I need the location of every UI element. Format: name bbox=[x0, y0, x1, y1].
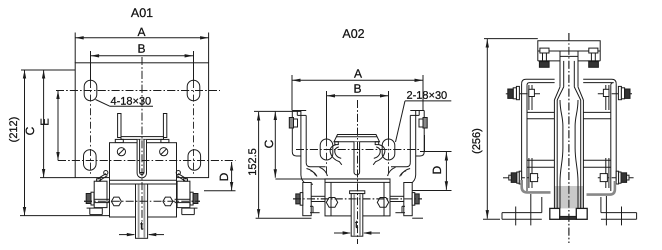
clamp jaw plate left A01 bbox=[94, 181, 107, 207]
bolt axis centerline A02 bbox=[293, 198, 422, 200]
svg-text:B: B bbox=[353, 82, 361, 96]
slot hole left 18x30 A02 bbox=[320, 139, 333, 160]
svg-text:A: A bbox=[354, 67, 362, 81]
cross plate lower right bbox=[583, 159, 610, 161]
upper angle bracket left bbox=[522, 79, 555, 83]
centerline overlay A01 lower slots bbox=[58, 160, 236, 162]
rail claw hook left A02 (under T-bar end) bbox=[330, 145, 342, 165]
hex bolt left A02 bbox=[326, 198, 337, 208]
wall bolt right A02 bbox=[423, 118, 427, 129]
vertical centerline A02 bbox=[357, 100, 359, 244]
svg-text:4-18×30: 4-18×30 bbox=[110, 96, 151, 108]
slot hole bottom-left 18x30 bbox=[84, 150, 97, 170]
hanger lug left bbox=[559, 51, 561, 87]
L-foot right side view bbox=[587, 181, 615, 195]
clamp bolt axis centerline A01 bbox=[84, 200, 200, 202]
svg-text:D: D bbox=[430, 166, 444, 175]
vertical centerline side view bbox=[568, 33, 570, 243]
slot vertical centerline right bbox=[193, 51, 195, 81]
top mounting plate side view bbox=[538, 41, 600, 61]
svg-text:(256): (256) bbox=[471, 128, 483, 154]
centerline overlay A01 upper slots bbox=[56, 90, 220, 92]
svg-text:E: E bbox=[40, 118, 52, 126]
base bar right bbox=[601, 212, 637, 214]
clamp jaw plate right A01 bbox=[177, 181, 190, 207]
dimension C (A01) bbox=[40, 177, 75, 179]
right suspension U-hook A02 bbox=[410, 110, 424, 112]
wall bolt left A02 bbox=[289, 118, 293, 129]
claw strap right A01 bbox=[178, 174, 186, 179]
centerline overlay side view vertical bbox=[568, 33, 570, 243]
dimension (212) left bbox=[21, 69, 75, 71]
lower bolt cluster right side view bbox=[598, 177, 635, 179]
angle foot left A02 bbox=[310, 212, 320, 214]
label 2-18x30 with leader bbox=[396, 101, 406, 142]
rail waist profile right bbox=[575, 100, 578, 209]
upper angle bracket right bbox=[583, 79, 616, 83]
clamp block A02 bbox=[325, 179, 390, 216]
rail shading bottom bbox=[555, 186, 584, 208]
hanger lug right bbox=[577, 51, 579, 87]
L-foot left side view bbox=[522, 180, 551, 192]
svg-text:C: C bbox=[262, 139, 276, 148]
lower bolt cluster left side view bbox=[503, 177, 540, 179]
right wall A02 bbox=[415, 111, 417, 176]
rod washer right bbox=[161, 139, 169, 142]
slot hole right 18x30 A02 bbox=[382, 139, 395, 160]
clamp jaw plate right A02 bbox=[404, 183, 412, 216]
lower bolt hex right bbox=[163, 197, 173, 206]
upper bolt cluster left side view bbox=[528, 85, 530, 110]
top bolt left side view bbox=[540, 48, 549, 53]
left wall A02 bbox=[300, 111, 302, 176]
dimension (256) side view bbox=[484, 38, 538, 40]
side bolt right A01 bbox=[175, 198, 191, 200]
left suspension U-hook A02 bbox=[292, 110, 306, 112]
centerline overlay A02 vertical bbox=[357, 100, 359, 244]
side bolt left A02 bbox=[296, 194, 300, 204]
side plate right bbox=[615, 84, 617, 182]
top bolt right side view bbox=[589, 48, 598, 53]
svg-text:C: C bbox=[23, 126, 37, 135]
rail web bar A02 bbox=[350, 191, 365, 194]
dimension B (A02) bbox=[327, 95, 389, 97]
cross plate upper right bbox=[583, 111, 610, 113]
top bar A01 bbox=[121, 137, 164, 140]
svg-text:D: D bbox=[217, 172, 231, 181]
mounting plate A01 bbox=[75, 63, 208, 178]
claw strap left A01 bbox=[98, 174, 106, 179]
svg-text:A: A bbox=[137, 25, 145, 39]
svg-text:(212): (212) bbox=[8, 117, 20, 143]
cross plate lower left bbox=[527, 159, 554, 161]
rod washer left bbox=[115, 139, 123, 142]
slot hole top-right 18x30 bbox=[187, 80, 200, 100]
upper bolt cluster right side view bbox=[605, 85, 607, 110]
slot vertical centerlines A02 bbox=[326, 91, 328, 139]
dimension D (A01) bbox=[204, 190, 236, 192]
rail waist profile left bbox=[560, 100, 563, 209]
base feet blocks bbox=[550, 208, 560, 219]
slot centerline A02 bbox=[296, 149, 420, 151]
clamp screw right (slotted) bbox=[160, 148, 168, 156]
side plate left bbox=[521, 84, 523, 182]
T-bolt stem A01 bbox=[140, 139, 144, 174]
slot hole top-left 18x30 bbox=[84, 80, 97, 100]
svg-text:152.5: 152.5 bbox=[247, 148, 259, 176]
T-bolt stem A02 bbox=[354, 142, 360, 175]
angle foot left A01 bbox=[87, 207, 103, 209]
dimension t (A01) bbox=[119, 234, 134, 236]
clamp divider lines bbox=[110, 179, 177, 181]
hanger rod left A01 bbox=[118, 114, 121, 138]
clamp top plate A02 bbox=[275, 178, 390, 180]
lug flare diagonals bbox=[554, 87, 560, 100]
dimension 152.5 bbox=[254, 110, 301, 112]
rail claw hook right A02 (under T-bar end) bbox=[373, 145, 385, 165]
lower slot centerline A01 bbox=[58, 160, 236, 162]
slot hole bottom-right 18x30 bbox=[188, 150, 201, 170]
label 4-18x30 with leader bbox=[96, 100, 111, 107]
dimension C (A02) bbox=[274, 112, 276, 178]
centerline overlay A02 bolt axis bbox=[293, 198, 422, 200]
dimension A (A01) bbox=[74, 33, 76, 63]
dimension D (A02) bbox=[420, 151, 452, 153]
upper slot centerline A01 bbox=[56, 90, 220, 92]
lower bolt hex left bbox=[111, 197, 121, 206]
angle foot right A02 bbox=[395, 212, 405, 214]
svg-text:B: B bbox=[137, 42, 145, 56]
dimension E (A01) bbox=[57, 91, 59, 161]
base bar left bbox=[502, 212, 542, 214]
angle foot right A01 bbox=[182, 207, 198, 209]
centerline overlay A02 slots bbox=[296, 149, 420, 151]
svg-text:A02: A02 bbox=[342, 27, 364, 41]
hex bolt right A02 bbox=[377, 198, 388, 208]
side bolt left A01 bbox=[86, 194, 91, 204]
dimension A (A02) bbox=[291, 75, 293, 110]
svg-text:2-18×30: 2-18×30 bbox=[406, 90, 447, 102]
side bolt right A02 bbox=[390, 195, 404, 197]
slot vertical centerline left bbox=[90, 51, 92, 81]
dimension t (A02) bbox=[334, 232, 350, 234]
vertical centerline A01 bbox=[141, 57, 143, 230]
base hole tick marks bbox=[515, 207, 517, 226]
svg-text:A01: A01 bbox=[131, 6, 153, 20]
rail web bar A01 bbox=[136, 184, 148, 238]
T-bolt bar A02 (trapezoid) bbox=[334, 135, 380, 142]
cross plate upper left bbox=[527, 111, 554, 113]
clamp block A01 bbox=[110, 143, 177, 217]
clamp screw left (slotted) bbox=[117, 148, 125, 156]
hanger strap lines bbox=[553, 100, 555, 209]
dimension B (A01) bbox=[91, 55, 194, 57]
centerline overlay A01 vertical bbox=[141, 57, 143, 230]
clamp jaw plate left A02 bbox=[303, 183, 311, 216]
center keyhole slot A01 bbox=[137, 140, 146, 178]
centerline overlay A01 bolt axis bbox=[84, 200, 200, 202]
hanger rod right A01 bbox=[163, 114, 166, 138]
